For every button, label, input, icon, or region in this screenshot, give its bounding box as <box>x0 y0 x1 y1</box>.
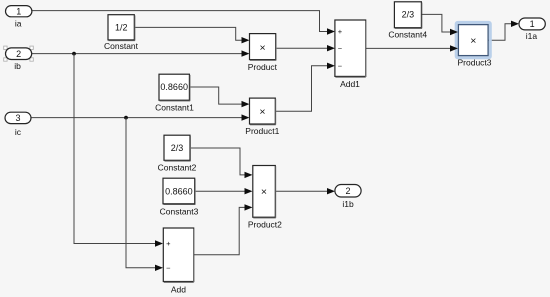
product Product2 <box>253 166 276 218</box>
wire Product to Add1 <box>276 45 335 51</box>
constant Constant3 (0.8660) <box>163 178 195 204</box>
svg-text:i1b: i1b <box>342 199 354 209</box>
svg-text:2: 2 <box>345 186 350 196</box>
wire ic branch to Add minus <box>126 118 163 271</box>
product Product1 <box>250 98 276 125</box>
svg-text:−: − <box>166 263 171 272</box>
svg-text:+: + <box>166 239 171 248</box>
svg-text:2/3: 2/3 <box>402 10 415 20</box>
wire ib to Product <box>32 50 250 56</box>
outport 1 <box>519 18 545 30</box>
svg-text:−: − <box>338 44 343 53</box>
svg-text:×: × <box>260 42 266 54</box>
wire Constant1 to Product1 <box>190 87 250 107</box>
constant Constant2 (2/3) <box>164 135 191 161</box>
svg-text:Constant: Constant <box>104 41 139 51</box>
constant Constant4 (2/3) <box>394 2 422 29</box>
product Product3 <box>458 25 488 56</box>
svg-text:ic: ic <box>15 127 22 137</box>
svg-text:×: × <box>261 186 267 198</box>
outport 2 <box>335 185 361 198</box>
svg-text:1: 1 <box>16 6 21 16</box>
svg-text:Product3: Product3 <box>457 57 491 67</box>
svg-text:0.8660: 0.8660 <box>165 186 193 196</box>
sum Add <box>163 228 193 282</box>
svg-text:Product: Product <box>248 62 278 72</box>
svg-text:Add1: Add1 <box>340 79 360 89</box>
wire Product3 to outport 1 <box>488 21 519 41</box>
wire Constant2 to Product2 <box>190 148 253 178</box>
constant Constant1 (0.8660) <box>159 74 190 101</box>
junction ic branch <box>124 116 128 120</box>
wire Constant to Product <box>134 27 249 43</box>
wire Add1 to Product3 <box>366 45 458 51</box>
svg-text:ia: ia <box>15 19 22 29</box>
wire ia to Add1 <box>32 11 335 35</box>
product Product <box>250 34 277 61</box>
junction ib branch <box>72 52 76 56</box>
wire Add to Product2 <box>194 204 253 255</box>
svg-text:1/2: 1/2 <box>115 23 128 33</box>
svg-text:Constant3: Constant3 <box>160 206 199 216</box>
inport 2 <box>6 48 32 60</box>
svg-text:Product1: Product1 <box>245 126 279 136</box>
svg-text:+: + <box>338 27 343 36</box>
svg-text:×: × <box>259 106 265 118</box>
wire Constant4 to Product3 <box>421 14 458 35</box>
svg-text:×: × <box>470 35 476 47</box>
svg-text:Product2: Product2 <box>248 220 282 230</box>
wire ic to Product1 <box>31 114 250 120</box>
svg-text:Add: Add <box>171 285 186 295</box>
selection handles inport 2 <box>4 46 34 61</box>
svg-text:i1a: i1a <box>526 31 538 41</box>
svg-text:Constant2: Constant2 <box>158 163 197 173</box>
svg-text:3: 3 <box>15 113 20 123</box>
svg-text:Constant4: Constant4 <box>388 29 427 39</box>
sum Add1 <box>335 20 366 77</box>
wire Product2 to outport 2 <box>276 188 336 194</box>
svg-text:0.8660: 0.8660 <box>160 82 188 92</box>
wire Product1 to Add1 <box>276 63 336 112</box>
svg-text:1: 1 <box>530 19 535 29</box>
wire Constant3 to Product2 <box>195 188 253 194</box>
svg-text:−: − <box>338 62 343 71</box>
inport 1 <box>6 6 32 17</box>
wire ib branch to Add plus <box>74 54 163 247</box>
inport 3 <box>5 112 31 123</box>
constant Constant (1/2) <box>108 15 135 41</box>
svg-text:ib: ib <box>14 61 21 71</box>
svg-text:2: 2 <box>16 49 21 59</box>
svg-text:Constant1: Constant1 <box>155 103 194 113</box>
svg-text:2/3: 2/3 <box>171 143 184 153</box>
selection glow Product3 <box>456 22 490 57</box>
